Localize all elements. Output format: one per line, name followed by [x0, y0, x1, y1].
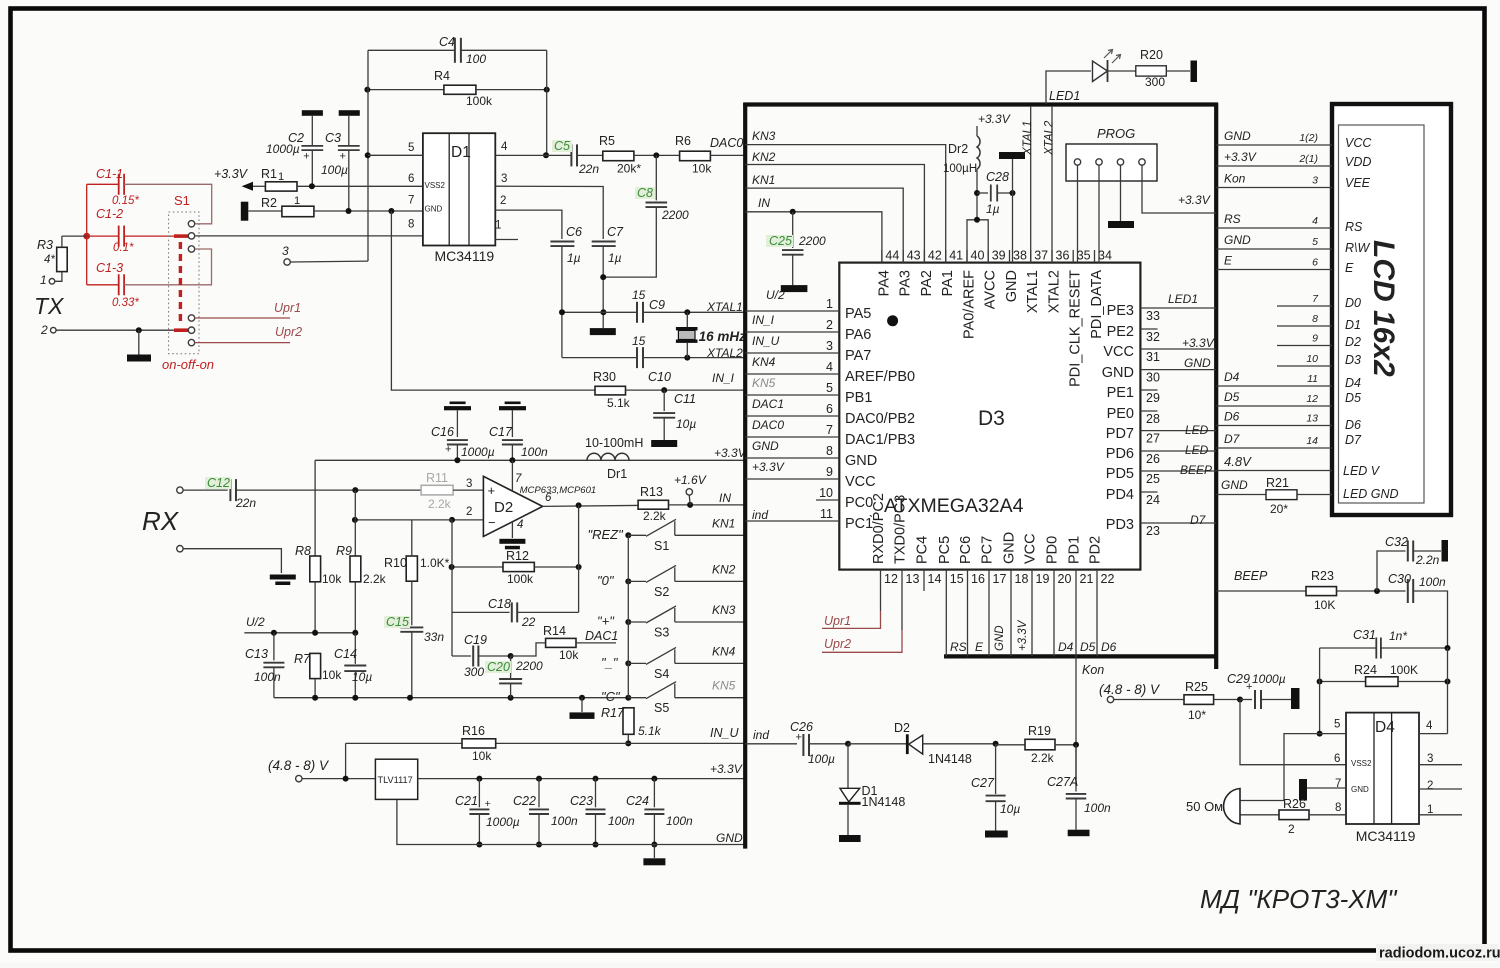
- svg-text:R3: R3: [37, 238, 53, 252]
- svg-text:R11: R11: [426, 471, 448, 485]
- svg-text:Upr1: Upr1: [274, 301, 301, 315]
- svg-text:"+": "+": [597, 614, 615, 629]
- svg-text:radiodom.ucoz.ru: radiodom.ucoz.ru: [1379, 946, 1500, 962]
- svg-text:+3.3V: +3.3V: [1017, 619, 1029, 651]
- resistor R30: [593, 370, 744, 410]
- capacitor C25: [766, 209, 826, 285]
- svg-text:+3.3V: +3.3V: [710, 762, 743, 776]
- svg-text:34: 34: [1098, 249, 1112, 263]
- svg-text:PE2: PE2: [1107, 324, 1134, 340]
- svg-text:10k: 10k: [322, 668, 342, 682]
- resistor R3: [37, 236, 67, 281]
- switch S5: [601, 679, 744, 716]
- svg-text:U/2: U/2: [246, 615, 265, 629]
- svg-text:D2: D2: [894, 721, 910, 735]
- ground at XTAL1 row: [590, 309, 616, 335]
- wire BEEP: [1216, 569, 1306, 591]
- svg-text:R2: R2: [261, 196, 277, 210]
- svg-text:KN3: KN3: [752, 129, 776, 143]
- wire C4/R4 left vertical + node pin5: [365, 50, 371, 261]
- svg-text:+: +: [488, 483, 496, 498]
- capacitor C26: [790, 720, 848, 766]
- svg-text:7: 7: [826, 423, 833, 437]
- svg-text:DAC1/PB3: DAC1/PB3: [845, 432, 915, 448]
- svg-text:3: 3: [826, 339, 833, 353]
- wire D2 pin7 supply: [511, 460, 513, 491]
- svg-text:VCC: VCC: [1345, 136, 1372, 150]
- svg-text:2: 2: [1427, 780, 1433, 792]
- svg-text:C9: C9: [649, 298, 665, 312]
- svg-text:100k: 100k: [507, 572, 534, 586]
- switch S2: [597, 562, 744, 599]
- capacitor C2: [266, 110, 323, 189]
- svg-text:E: E: [1345, 261, 1354, 275]
- svg-text:7: 7: [408, 195, 414, 207]
- capacitor C21: [455, 779, 520, 848]
- svg-text:KN1: KN1: [752, 173, 775, 187]
- svg-text:32: 32: [1146, 330, 1160, 344]
- capacitor C16: [431, 402, 495, 464]
- svg-text:10K: 10K: [1314, 598, 1335, 612]
- svg-text:C16: C16: [431, 425, 454, 439]
- LED LED1: [1093, 50, 1136, 83]
- svg-text:10µ: 10µ: [352, 670, 372, 684]
- svg-text:S1: S1: [174, 193, 190, 208]
- ground below C27A: [1068, 830, 1090, 837]
- svg-text:43: 43: [907, 249, 921, 263]
- svg-text:1: 1: [826, 297, 833, 311]
- node C8 junction: [653, 152, 659, 158]
- svg-text:1µ: 1µ: [608, 251, 622, 265]
- svg-text:100K: 100K: [1390, 663, 1418, 677]
- resistor R16: [346, 724, 496, 779]
- capacitor C29: [1227, 672, 1291, 709]
- diode D1 1N4148: [839, 744, 905, 835]
- capacitor C11: [651, 390, 696, 447]
- svg-text:2.2k: 2.2k: [363, 572, 387, 586]
- svg-text:PA6: PA6: [845, 327, 871, 343]
- resistor R6: [675, 134, 744, 176]
- svg-text:2: 2: [500, 195, 506, 207]
- ground bar at R2: [241, 202, 249, 221]
- wire KN3 to PA1: [745, 129, 946, 263]
- svg-text:23: 23: [1146, 524, 1160, 538]
- svg-text:+3.3V: +3.3V: [752, 460, 785, 474]
- svg-text:1N4148: 1N4148: [862, 795, 906, 809]
- svg-text:+3.3V: +3.3V: [1182, 336, 1215, 350]
- ground bar at R20: [1191, 61, 1198, 83]
- ground below D1: [839, 835, 861, 842]
- svg-text:PA0/AREF: PA0/AREF: [962, 270, 978, 339]
- svg-text:KN2: KN2: [752, 150, 776, 164]
- U/2 bar below C25: [766, 285, 807, 302]
- svg-text:C1-1: C1-1: [96, 167, 123, 181]
- svg-text:S2: S2: [654, 585, 669, 599]
- svg-text:20k*: 20k*: [617, 162, 641, 176]
- svg-text:C11: C11: [674, 392, 696, 406]
- wire D2 output pin6: [543, 502, 639, 508]
- svg-text:"_": "_": [601, 655, 619, 670]
- svg-text:6: 6: [1312, 257, 1318, 269]
- svg-text:10k: 10k: [692, 162, 712, 176]
- svg-text:GND: GND: [1224, 233, 1251, 247]
- svg-text:10: 10: [1306, 353, 1318, 365]
- IC D1 MC34119: [423, 133, 495, 264]
- svg-text:16: 16: [971, 572, 985, 586]
- svg-text:DAC1: DAC1: [752, 397, 784, 411]
- svg-text:15: 15: [950, 572, 964, 586]
- RX label: [142, 506, 180, 536]
- resistor R9: [336, 490, 387, 633]
- wire D1 pin5: [368, 154, 423, 156]
- svg-text:25: 25: [1146, 472, 1160, 486]
- D3 top pin names: [876, 270, 1105, 387]
- D4 pin numbers: [1334, 719, 1433, 816]
- TX coil label: [34, 293, 65, 319]
- svg-text:R16: R16: [462, 724, 485, 738]
- svg-text:PB1: PB1: [845, 390, 872, 406]
- svg-text:KN4: KN4: [752, 355, 776, 369]
- svg-text:8: 8: [408, 219, 414, 231]
- wire XTAL2: [562, 346, 744, 360]
- ground bar at C29: [1291, 688, 1300, 709]
- svg-text:LED GND: LED GND: [1343, 487, 1399, 501]
- svg-text:1000µ: 1000µ: [486, 815, 520, 829]
- svg-text:1n*: 1n*: [1389, 629, 1407, 643]
- wire pins 40/39 net: [967, 217, 988, 263]
- inductor Dr2 100uH: [943, 126, 980, 220]
- svg-text:30: 30: [1146, 371, 1160, 385]
- ground bar at D4 pin7: [1299, 779, 1346, 801]
- resistor R24: [1317, 663, 1451, 686]
- resistor R11 (gray): [421, 471, 483, 511]
- svg-text:R1: R1: [261, 167, 277, 181]
- svg-text:PA2: PA2: [919, 270, 935, 296]
- node TX red rail: [83, 184, 90, 284]
- svg-text:KN5: KN5: [712, 679, 736, 693]
- svg-text:S4: S4: [654, 667, 669, 681]
- svg-text:C3: C3: [325, 131, 341, 145]
- svg-text:1µ: 1µ: [986, 202, 1000, 216]
- capacitor C13: [245, 633, 284, 698]
- resistor R26: [1240, 797, 1346, 836]
- svg-text:28: 28: [1146, 412, 1160, 426]
- svg-text:C15: C15: [386, 615, 409, 629]
- svg-text:5: 5: [408, 142, 414, 154]
- capacitor C23: [570, 779, 635, 848]
- svg-text:2200: 2200: [661, 208, 689, 222]
- svg-text:TLV1117: TLV1117: [378, 775, 413, 785]
- resistor R13: [638, 485, 744, 523]
- LCD inner pin labels: [1343, 136, 1399, 501]
- speaker 50 Om: [1186, 789, 1240, 825]
- svg-text:R19: R19: [1028, 724, 1051, 738]
- svg-text:R26: R26: [1283, 797, 1306, 811]
- svg-text:C4: C4: [439, 35, 455, 49]
- resistor R4: [364, 69, 549, 108]
- svg-text:+: +: [485, 798, 491, 810]
- wire C4/R4 right vertical to pin4: [543, 50, 549, 158]
- svg-text:VSS2: VSS2: [1351, 759, 1372, 768]
- capacitor C6: [550, 225, 582, 358]
- capacitor C30: [1388, 572, 1448, 648]
- svg-text:1N4148: 1N4148: [928, 752, 972, 766]
- node C27 junction: [993, 741, 999, 747]
- node C20 junction: [508, 653, 514, 659]
- terminal (4.8-8)V left: [268, 758, 330, 782]
- svg-text:PC7: PC7: [980, 536, 996, 564]
- wire Upr2: [195, 325, 303, 343]
- svg-text:13: 13: [906, 572, 920, 586]
- svg-text:VCC: VCC: [1023, 533, 1039, 564]
- svg-text:+1.6V: +1.6V: [674, 473, 707, 487]
- terminal (4.8-8)V right: [1099, 682, 1161, 703]
- svg-text:22n: 22n: [235, 496, 256, 510]
- wire D1 pin2 to C6: [495, 210, 562, 239]
- svg-text:LCD 16x2: LCD 16x2: [1367, 240, 1400, 377]
- resistor R5: [599, 134, 680, 176]
- bus bottom-right horizontal: [944, 654, 1218, 658]
- svg-text:2(1): 2(1): [1298, 153, 1318, 165]
- svg-text:ind: ind: [753, 728, 769, 742]
- terminal 3: [282, 244, 368, 265]
- wire D4 pin5: [1240, 734, 1346, 801]
- svg-text:C27A: C27A: [1047, 775, 1078, 789]
- svg-text:13: 13: [1306, 413, 1318, 425]
- svg-text:22n: 22n: [578, 162, 599, 176]
- capacitor C18: [452, 597, 579, 629]
- svg-text:D2: D2: [1345, 335, 1361, 349]
- resistor R12: [449, 505, 582, 656]
- bus top horizontal: [743, 102, 1218, 106]
- svg-text:24: 24: [1146, 493, 1160, 507]
- svg-text:+: +: [445, 444, 451, 456]
- svg-text:R5: R5: [599, 134, 615, 148]
- node D1 junction: [845, 741, 906, 747]
- resistor R20: [1136, 48, 1190, 89]
- svg-text:IN_I: IN_I: [712, 371, 735, 385]
- D3 right pin wires 33-23: [1140, 292, 1216, 538]
- svg-text:VDD: VDD: [1345, 155, 1371, 169]
- capacitor C24: [626, 779, 693, 848]
- svg-text:2: 2: [826, 318, 833, 332]
- svg-text:GND: GND: [425, 205, 443, 214]
- svg-text:10k: 10k: [559, 648, 579, 662]
- svg-text:RS: RS: [950, 640, 967, 654]
- svg-text:PC0: PC0: [845, 495, 873, 511]
- svg-text:3: 3: [501, 173, 507, 185]
- svg-text:KN1: KN1: [712, 516, 735, 530]
- svg-text:VSS2: VSS2: [425, 181, 446, 190]
- svg-text:BEEP: BEEP: [1234, 569, 1268, 583]
- svg-text:C26: C26: [790, 720, 813, 734]
- svg-text:2200: 2200: [798, 234, 826, 248]
- svg-text:"C": "C": [601, 689, 621, 704]
- svg-text:D4: D4: [1224, 370, 1240, 384]
- svg-text:4: 4: [517, 519, 523, 531]
- resistor R25: [1114, 680, 1243, 722]
- capacitor C20: [485, 656, 543, 698]
- svg-text:U/2: U/2: [766, 288, 785, 302]
- terminal RX lower + ground: [177, 546, 296, 586]
- svg-text:MCP633,MCP601: MCP633,MCP601: [520, 485, 597, 496]
- terminal 1: [40, 273, 55, 287]
- svg-text:D6: D6: [1101, 640, 1117, 654]
- svg-text:0.15*: 0.15*: [112, 195, 139, 207]
- svg-text:PE3: PE3: [1107, 303, 1134, 319]
- svg-text:+3.3V: +3.3V: [214, 167, 249, 181]
- svg-text:4: 4: [1312, 215, 1318, 227]
- capacitor C1-1: [87, 167, 212, 224]
- svg-text:GND: GND: [1351, 785, 1369, 794]
- svg-text:Upr2: Upr2: [824, 637, 851, 651]
- svg-text:R25: R25: [1185, 680, 1208, 694]
- svg-text:4: 4: [826, 360, 833, 374]
- svg-text:PD3: PD3: [1106, 517, 1134, 533]
- svg-text:D7: D7: [1190, 513, 1207, 527]
- svg-text:1(2): 1(2): [1299, 132, 1318, 144]
- svg-text:R24: R24: [1354, 663, 1377, 677]
- svg-text:PD7: PD7: [1106, 426, 1134, 442]
- svg-text:Kon: Kon: [1224, 172, 1246, 186]
- svg-text:Upr1: Upr1: [824, 614, 851, 628]
- ground below C24: [643, 845, 665, 866]
- capacitor C31: [1320, 628, 1451, 659]
- svg-text:100n: 100n: [254, 670, 281, 684]
- svg-text:300: 300: [1145, 75, 1165, 89]
- svg-text:4: 4: [501, 141, 508, 153]
- resistor R10: [384, 520, 450, 581]
- svg-text:27: 27: [1146, 432, 1160, 446]
- svg-text:BEEP: BEEP: [1180, 463, 1212, 477]
- svg-text:PC5: PC5: [937, 536, 953, 564]
- switch S3: [597, 603, 744, 640]
- ground at PROG pin3: [1108, 166, 1134, 229]
- svg-text:D7: D7: [1224, 432, 1241, 446]
- net label IN_I left: [712, 371, 735, 385]
- wire C1-2 left (TX terminal to rail): [62, 235, 87, 237]
- svg-text:100n: 100n: [666, 814, 693, 828]
- svg-text:31: 31: [1146, 350, 1160, 364]
- svg-text:E: E: [975, 640, 984, 654]
- svg-text:10µ: 10µ: [1000, 802, 1020, 816]
- svg-text:GND: GND: [1002, 532, 1018, 564]
- svg-text:1000µ: 1000µ: [1252, 672, 1286, 686]
- svg-text:40: 40: [971, 249, 985, 263]
- svg-text:R17: R17: [601, 706, 625, 720]
- D3 bottom pin names: [871, 493, 1104, 564]
- wire KN1 to PA3: [745, 173, 903, 263]
- wire Upr1 (to D3 pin12): [822, 591, 881, 628]
- D3 top pin numbers 44-34: [882, 249, 1112, 263]
- svg-text:IN: IN: [719, 491, 731, 505]
- resistor R23: [1306, 569, 1406, 612]
- svg-text:100n: 100n: [1084, 801, 1111, 815]
- svg-text:IN: IN: [758, 196, 770, 210]
- svg-text:C1-2: C1-2: [96, 207, 123, 221]
- svg-text:Dr2: Dr2: [948, 142, 968, 156]
- svg-text:PD2: PD2: [1088, 536, 1104, 564]
- svg-text:100µ: 100µ: [321, 163, 348, 177]
- svg-text:IN_U: IN_U: [710, 726, 739, 740]
- svg-text:R13: R13: [640, 485, 663, 499]
- wire terminal2 to S1 pole: [56, 327, 174, 333]
- capacitor C4: [368, 35, 547, 66]
- svg-text:GND: GND: [1004, 270, 1020, 302]
- svg-text:4*: 4*: [44, 254, 55, 266]
- svg-text:LED1: LED1: [1049, 89, 1080, 103]
- svg-text:+3.3V: +3.3V: [1224, 150, 1257, 164]
- svg-text:PD4: PD4: [1106, 487, 1134, 503]
- svg-text:39: 39: [992, 249, 1006, 263]
- svg-text:C30: C30: [1388, 572, 1411, 586]
- svg-text:37: 37: [1034, 249, 1048, 263]
- svg-text:+3.3V: +3.3V: [978, 112, 1011, 126]
- svg-text:5: 5: [1312, 236, 1318, 248]
- svg-text:5.1k: 5.1k: [638, 724, 662, 738]
- resistor R7: [294, 652, 342, 698]
- svg-text:AREF/PB0: AREF/PB0: [845, 369, 915, 385]
- IC D4 MC34119: [1346, 713, 1419, 844]
- svg-text:GND: GND: [1221, 478, 1248, 492]
- svg-text:5: 5: [826, 381, 833, 395]
- wire button common column: [627, 535, 629, 697]
- svg-text:36: 36: [1056, 249, 1070, 263]
- svg-text:PD1: PD1: [1067, 536, 1083, 564]
- svg-text:RS: RS: [1345, 220, 1363, 234]
- svg-text:D6: D6: [1224, 410, 1240, 424]
- svg-text:100n: 100n: [608, 814, 635, 828]
- net label IN: [719, 491, 731, 505]
- wire DAC0 net (D1 pin4 row): [495, 154, 571, 156]
- svg-text:PA5: PA5: [845, 306, 871, 322]
- svg-text:42: 42: [928, 249, 942, 263]
- svg-text:C7: C7: [607, 225, 624, 239]
- svg-text:100k: 100k: [466, 94, 493, 108]
- svg-text:3: 3: [1427, 753, 1433, 765]
- wire C31/R24 right vertical to D4 pin4: [1447, 648, 1449, 734]
- wire D4 pin2 stub: [1419, 788, 1462, 790]
- node C11 junction: [661, 387, 667, 393]
- svg-text:GND: GND: [1184, 356, 1211, 370]
- svg-text:1: 1: [40, 273, 47, 287]
- net label DAC1 (R14): [585, 629, 618, 643]
- svg-text:1: 1: [495, 220, 501, 232]
- svg-text:C5: C5: [554, 139, 570, 153]
- svg-text:D4: D4: [1058, 640, 1074, 654]
- svg-text:C20: C20: [487, 660, 510, 674]
- svg-text:D5: D5: [1080, 640, 1096, 654]
- svg-text:12: 12: [884, 572, 898, 586]
- svg-text:PC1̀: PC1̀: [845, 515, 873, 532]
- svg-text:19: 19: [1036, 572, 1050, 586]
- svg-text:10: 10: [819, 486, 833, 500]
- resistor R14: [511, 624, 616, 662]
- svg-text:C12: C12: [207, 476, 230, 490]
- svg-text:300: 300: [464, 665, 484, 679]
- wire LED1: [1046, 71, 1091, 104]
- svg-text:10-100mH: 10-100mH: [585, 436, 643, 450]
- svg-text:KN5: KN5: [752, 376, 776, 390]
- svg-text:2: 2: [1288, 822, 1295, 836]
- svg-text:PDI_CLK_RESET: PDI_CLK_RESET: [1068, 270, 1084, 387]
- svg-text:41: 41: [949, 249, 963, 263]
- capacitor C1-2: [87, 207, 174, 254]
- capacitor C19: [452, 633, 511, 679]
- svg-text:R20: R20: [1140, 48, 1163, 62]
- wire Upr1: [195, 301, 302, 318]
- svg-text:D3: D3: [978, 407, 1005, 430]
